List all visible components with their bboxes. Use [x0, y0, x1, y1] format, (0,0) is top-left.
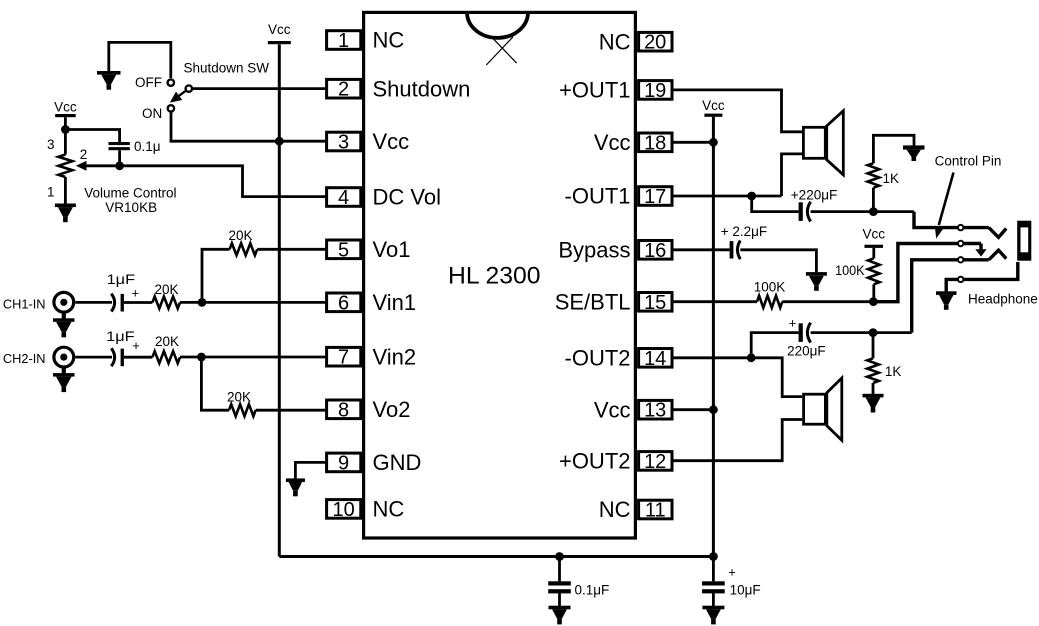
resistor 20K (CH1 input)	[152, 297, 180, 309]
svg-text:4: 4	[338, 187, 349, 209]
svg-text:Vo2: Vo2	[373, 397, 411, 422]
svg-text:+OUT2: +OUT2	[559, 449, 631, 474]
pin 10 box	[327, 499, 361, 521]
wire pin 18 to rail	[672, 141, 714, 144]
svg-text:Vcc: Vcc	[594, 130, 631, 155]
svg-text:NC: NC	[373, 497, 405, 522]
shutdown switch pole terminal	[186, 85, 192, 91]
resistor 20K (Vo2 feedback)	[229, 404, 256, 416]
svg-text:13: 13	[644, 400, 666, 422]
wire right Vcc rail vertical	[712, 117, 715, 557]
svg-text:3: 3	[338, 132, 349, 154]
pin 20 box	[639, 32, 672, 54]
pin 6 box	[327, 292, 361, 314]
wire 100K to SE/BTL node	[872, 284, 875, 301]
wire 2.2uF to ground	[740, 250, 816, 272]
svg-text:18: 18	[644, 132, 666, 154]
junction (SE/BTL node)	[869, 297, 878, 306]
wire shutdown OFF to ground	[109, 42, 171, 78]
jack contact circle (tip)	[958, 225, 963, 230]
resistor 100K (SE/BTL series)	[757, 296, 782, 308]
wire rail to 0.1uF	[558, 557, 561, 582]
svg-text:Shutdown: Shutdown	[373, 76, 471, 101]
resistor 20K (CH2 input)	[152, 351, 180, 363]
junction (wiper / cap)	[115, 161, 124, 170]
svg-text:1K: 1K	[885, 364, 902, 379]
jack contact circle (sleeve)	[958, 277, 963, 282]
resistor 1K (OUT2)	[867, 358, 879, 383]
svg-text:CH2-IN: CH2-IN	[3, 351, 46, 366]
pin 15 box	[639, 292, 672, 314]
svg-text:+: +	[132, 338, 140, 353]
pot wiper arrow	[76, 161, 87, 171]
wire 1K to ground (OUT1)	[873, 135, 914, 163]
pin 17 box	[639, 186, 672, 208]
svg-text:220μF: 220μF	[787, 343, 826, 358]
wire pin 15 SE/BTL to 100K	[672, 300, 757, 303]
RCA jack CH2-IN	[54, 347, 74, 367]
svg-text:NC: NC	[373, 28, 405, 53]
junction (1K OUT2 node)	[869, 328, 878, 337]
pin 18 box	[639, 132, 672, 154]
svg-text:NC: NC	[599, 29, 631, 54]
op-amp/IC U1 HL2300 body	[364, 12, 636, 538]
RCA jack CH1-IN	[54, 292, 74, 312]
pin 7 box	[327, 347, 361, 369]
speaker SP1 horn	[827, 111, 844, 175]
IC notch X mark	[486, 37, 516, 65]
shutdown switch ON terminal	[168, 105, 174, 111]
svg-text:12: 12	[644, 451, 666, 473]
speaker SP2 body	[804, 394, 826, 424]
svg-text:+220μF: +220μF	[791, 187, 837, 202]
pin 9 box	[327, 452, 361, 474]
svg-text:Shutdown SW: Shutdown SW	[184, 60, 270, 75]
IC orientation notch	[467, 12, 528, 37]
capacitor 1uF (CH1)	[111, 294, 124, 312]
wire jack tip contact (row1)	[914, 212, 989, 228]
svg-text:Volume Control: Volume Control	[84, 186, 176, 201]
wire 20K to pin 8 Vo2	[256, 409, 327, 412]
svg-text:0.1μ: 0.1μ	[134, 139, 161, 154]
wire pot bottom	[64, 177, 67, 204]
wire Vin1 node to 20K feedback	[202, 249, 230, 302]
svg-text:Headphone: Headphone	[968, 292, 1038, 307]
wire speaker1 to -OUT1 node	[782, 154, 803, 196]
wire CH1 jack to 1uF	[75, 301, 112, 304]
headphone jack body	[1017, 221, 1031, 261]
svg-text:100K: 100K	[835, 263, 865, 278]
wire Vcc rail vertical (x=279)	[278, 44, 281, 556]
svg-text:Vin1: Vin1	[373, 290, 417, 315]
wire wiper to pin 4 DC Vol	[87, 166, 327, 197]
svg-text:DC Vol: DC Vol	[373, 185, 441, 210]
svg-text:ON: ON	[142, 106, 162, 121]
resistor 20K (Vo1 feedback)	[230, 243, 258, 255]
ground (volume control)	[55, 204, 76, 223]
svg-text:14: 14	[644, 348, 666, 370]
Vcc symbol (volume control)	[54, 99, 77, 117]
wire pin 17 -OUT1	[672, 195, 782, 198]
svg-text:Vcc: Vcc	[54, 99, 77, 114]
capacitor 220uF (OUT2)	[799, 323, 811, 343]
pin 13 box	[639, 400, 672, 422]
wire 20K to pin 7 Vin2	[180, 356, 327, 359]
ground (1K OUT1)	[903, 145, 925, 161]
wire pin 12 +OUT2 to speaker2	[672, 420, 802, 461]
wire switch pole to pin 2	[192, 87, 327, 90]
wire Vcc to pot	[64, 117, 67, 154]
svg-text:Vcc: Vcc	[268, 22, 291, 37]
svg-text:Bypass: Bypass	[558, 237, 630, 262]
svg-text:-OUT2: -OUT2	[565, 345, 631, 370]
resistor 100K (pullup)	[868, 258, 880, 284]
control pin arrow	[935, 173, 954, 239]
svg-text:Vcc: Vcc	[373, 129, 410, 154]
ground (CH2 jack)	[53, 366, 75, 392]
capacitor 2.2uF (bypass)	[730, 241, 741, 260]
shutdown switch lever	[170, 91, 185, 102]
svg-text:Vcc: Vcc	[863, 227, 886, 242]
wire bottom Vcc rail horizontal	[279, 555, 713, 558]
svg-text:17: 17	[644, 186, 666, 208]
svg-text:1μF: 1μF	[106, 329, 135, 344]
svg-text:Vo1: Vo1	[373, 237, 411, 262]
potentiometer VR10KB element	[58, 155, 72, 178]
wire 0.1u cap to wiper	[118, 150, 121, 166]
wire 1K to ground (OUT2)	[872, 383, 875, 394]
svg-text:11: 11	[645, 500, 666, 522]
svg-text:100K: 100K	[754, 279, 786, 294]
pin 8 box	[327, 399, 361, 421]
svg-text:0.1μF: 0.1μF	[575, 583, 610, 598]
wire Vin2 node to 20K feedback	[201, 357, 229, 410]
svg-text:3: 3	[47, 137, 55, 152]
junction (Vin2 node)	[197, 353, 206, 362]
svg-text:+OUT1: +OUT1	[559, 78, 631, 103]
wire node to 1K (OUT2)	[872, 333, 875, 359]
svg-text:19: 19	[644, 80, 666, 102]
wire -OUT2 node to 220uF-2	[751, 333, 798, 358]
svg-text:+: +	[132, 285, 140, 300]
wire 20K to pin 6 Vin1	[180, 301, 327, 304]
jack ring spring contact	[989, 250, 1006, 260]
svg-text:9: 9	[338, 452, 349, 474]
svg-text:VR10KB: VR10KB	[105, 200, 157, 215]
junction (pin13 Vcc)	[709, 405, 718, 414]
shutdown switch OFF terminal	[168, 79, 174, 85]
wire switch ON to pin 3	[171, 113, 327, 142]
ground (10uF)	[702, 606, 724, 625]
ground (2.2uF)	[806, 272, 827, 291]
svg-text:NC: NC	[599, 497, 631, 522]
svg-text:8: 8	[338, 399, 349, 421]
wire 1uF to 20K (CH2)	[124, 356, 152, 359]
Vcc symbol (top rail)	[268, 22, 291, 44]
svg-text:GND: GND	[373, 450, 422, 475]
wire SE/BTL node to jack switch	[873, 244, 981, 302]
svg-text:20K: 20K	[155, 334, 179, 349]
junction (Vin1 node)	[198, 298, 207, 307]
junction (pin18 Vcc)	[709, 138, 718, 147]
svg-text:2: 2	[80, 147, 88, 162]
junction (Vcc rail / pin3)	[275, 137, 284, 146]
wire CH2 jack to 1uF	[75, 356, 112, 359]
svg-text:1K: 1K	[883, 171, 900, 186]
svg-text:1: 1	[338, 30, 349, 52]
ground (shutdown OFF)	[97, 71, 121, 90]
speaker SP1 body	[803, 127, 825, 158]
svg-text:20: 20	[644, 32, 666, 54]
jack contact circle (control)	[958, 241, 963, 246]
wire pin 19 +OUT1 to speaker1	[672, 90, 802, 132]
pin 2 box	[327, 79, 361, 101]
wire rail to 10uF	[712, 557, 715, 582]
capacitor 10uF (rail)	[702, 581, 725, 593]
junction (1K OUT1 node)	[869, 207, 878, 216]
pin 19 box	[639, 80, 672, 102]
wire 1uF to 20K (CH1)	[124, 301, 152, 304]
wire pin 9 GND to ground	[295, 462, 326, 478]
Vcc symbol (SE/BTL pullup)	[863, 227, 886, 248]
pin 11 box	[639, 500, 672, 522]
wire 100K to node	[782, 300, 873, 303]
wire 1K bottom to node	[872, 188, 875, 212]
svg-text:+: +	[789, 316, 797, 331]
svg-text:SE/BTL: SE/BTL	[555, 289, 631, 314]
resistor 1K (OUT1)	[868, 163, 880, 188]
svg-text:10μF: 10μF	[730, 583, 761, 598]
svg-text:Vcc: Vcc	[702, 98, 725, 113]
svg-text:-OUT1: -OUT1	[565, 184, 631, 209]
svg-text:Control Pin: Control Pin	[935, 154, 1002, 169]
svg-text:1: 1	[47, 184, 55, 199]
svg-text:HL 2300: HL 2300	[448, 263, 541, 290]
pin 4 box	[327, 187, 361, 209]
ground (CH1 jack)	[53, 312, 75, 338]
wire pin 14 -OUT2	[672, 358, 802, 397]
svg-text:20K: 20K	[154, 282, 178, 297]
svg-text:+ 2.2μF: + 2.2μF	[721, 224, 767, 239]
pin 5 box	[327, 239, 361, 261]
wire 220uF-2 to jack ring	[811, 331, 912, 334]
capacitor 0.1uF (rail)	[548, 581, 571, 593]
svg-text:20K: 20K	[228, 228, 252, 243]
wire pot-top to 0.1u cap	[65, 130, 119, 143]
svg-text:6: 6	[338, 292, 349, 314]
pin 14 box	[639, 348, 672, 370]
wire 20K to pin 5 Vo1	[257, 248, 326, 251]
junction (pot top / cap branch)	[61, 125, 70, 134]
svg-text:OFF: OFF	[135, 75, 162, 90]
pin 12 box	[639, 451, 672, 473]
junction (-OUT1 node)	[747, 192, 756, 201]
svg-text:7: 7	[338, 347, 349, 369]
jack tip spring contact	[989, 228, 1006, 238]
wire Vcc to 100K	[872, 248, 875, 258]
wire 0.1uF to ground	[558, 593, 561, 606]
svg-text:2: 2	[338, 79, 349, 101]
svg-text:CH1-IN: CH1-IN	[3, 297, 46, 312]
svg-text:Vcc: Vcc	[594, 397, 631, 422]
Vcc symbol (right rail)	[702, 98, 725, 117]
speaker SP2 horn	[827, 378, 842, 440]
wire 10uF to ground	[712, 593, 715, 606]
pin 3 box	[327, 132, 361, 154]
capacitor 220uF (OUT1)	[799, 202, 811, 222]
wire -OUT1 node to 220uF	[752, 196, 799, 212]
capacitor 1uF (CH2)	[111, 348, 124, 366]
jack contact circle (ring)	[958, 257, 963, 262]
junction (0.1uF rail)	[555, 552, 564, 561]
wire jack sleeve to ground (row4)	[946, 262, 1018, 292]
svg-text:Vin2: Vin2	[373, 344, 417, 369]
capacitor C 0.1u (volume)	[109, 142, 130, 150]
svg-text:+: +	[728, 564, 736, 579]
wire pin 13 to rail	[672, 408, 714, 411]
ground (1K OUT2)	[863, 394, 884, 413]
jack control-pin plunger	[975, 244, 986, 257]
ground (pin 9)	[286, 478, 305, 496]
svg-text:5: 5	[338, 239, 349, 261]
wire pin 16 Bypass to 2.2uF	[672, 248, 730, 251]
svg-text:10: 10	[332, 499, 354, 521]
svg-text:16: 16	[644, 240, 666, 262]
svg-text:15: 15	[644, 292, 666, 314]
pin 1 box	[327, 30, 361, 52]
junction (-OUT2 node)	[747, 353, 756, 362]
wire jack ring contact (row3)	[912, 260, 989, 333]
ground (0.1uF)	[549, 606, 571, 625]
svg-text:20K: 20K	[227, 389, 251, 404]
ground (headphone jack)	[936, 291, 957, 310]
junction (10uF rail)	[709, 552, 718, 561]
wire 220uF to jack tip	[811, 210, 914, 213]
pin 16 box	[639, 240, 672, 262]
